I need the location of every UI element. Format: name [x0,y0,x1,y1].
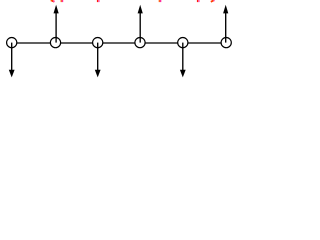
up arrow at node 2 [54,5,59,43]
clipped red text remnant E [197,0,198,2]
node 2 circle [50,38,60,48]
down arrow at node 3 [95,43,101,78]
shaft of down arrow inside node 5 [182,43,184,49]
node 3 circle [93,38,103,48]
node 1 circle [7,38,17,48]
shaft of up arrow inside node 4 [139,37,141,43]
wire: horizontal beam line through all nodes [12,42,227,44]
down arrow at node 1 [9,43,15,78]
down arrow at node 5 [180,43,186,78]
clipped red text remnant D [159,0,160,2]
clipped red text remnant F (diagonal) [211,0,214,1]
up arrow at node 6 [223,5,228,43]
shaft of down arrow inside node 1 (center to bottom) [11,43,13,49]
clipped red text remnant C [97,0,98,2]
shaft of up arrow inside node 2 (center to top) [55,37,57,43]
node 5 circle [178,38,188,48]
node 4 circle [135,38,145,48]
up arrow at node 4 [138,5,143,43]
clipped red text remnant B [61,0,62,2]
shaft of up arrow inside node 6 [225,37,227,43]
clipped red text remnant A (diagonal) [51,0,53,2]
shaft of down arrow inside node 3 [97,43,99,49]
node 6 circle [221,38,231,48]
